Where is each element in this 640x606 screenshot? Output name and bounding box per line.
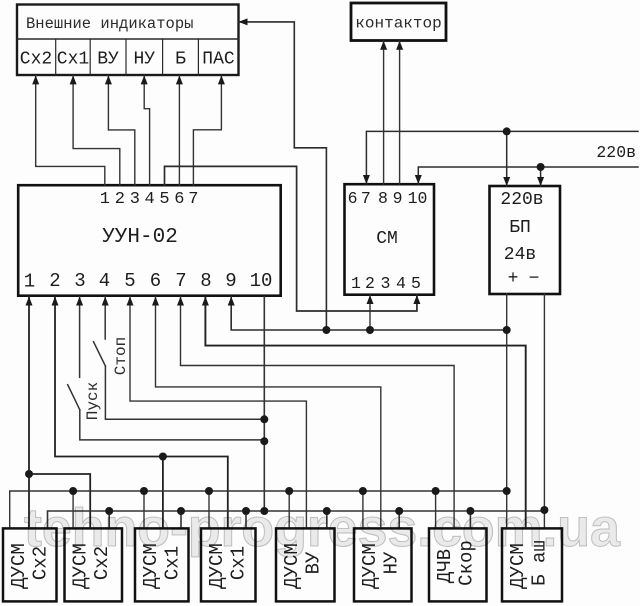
UUN bottom pin numbers 1-10 (24, 270, 273, 293)
wire 220v line lower to SM pin10 and BP (418, 167, 638, 186)
block DUSM box1 ДУСМ Сх2 (3, 528, 57, 601)
wire UUN top pin5 to SM bottom pin5 (165, 166, 417, 311)
wire UUN bottom pin3 upper (to Пуск switch) (79, 297, 81, 378)
switch Пуск blade (68, 385, 80, 410)
svg-text:ВУ: ВУ (97, 50, 119, 70)
wire SM bottom pin2 drop (369, 295, 371, 330)
svg-text:УУН-02: УУН-02 (102, 226, 178, 249)
block DUSM box2 ДУСМ Сх2 (65, 528, 123, 601)
wire SM pin8 to contactor (383, 41, 385, 184)
wire UUN bottom pin2 to box3/box4 (55, 297, 228, 529)
svg-text:8: 8 (378, 189, 388, 208)
svg-text:+: + (508, 269, 519, 289)
wire BP minus down (543, 294, 545, 528)
svg-text:220в: 220в (596, 143, 636, 162)
svg-text:БП: БП (509, 218, 531, 238)
block SM (СМ) (345, 184, 435, 295)
svg-text:4: 4 (99, 270, 110, 292)
block DUSM box6 ДУСМ НУ (354, 528, 412, 601)
svg-text:2: 2 (115, 190, 125, 209)
svg-text:tehno-progress.com.ua: tehno-progress.com.ua (24, 498, 621, 558)
wire UUN bottom pin8 to box8 (205, 297, 525, 529)
svg-text:1: 1 (24, 271, 35, 293)
down into SM top (363, 175, 370, 184)
wire 220v line upper to SM pin7 and BP (366, 131, 638, 186)
svg-text:2: 2 (365, 274, 375, 293)
up into UUN bottom (26, 297, 33, 306)
left into indicators right edge (239, 18, 248, 25)
up into contactor (380, 41, 387, 50)
wire UUN top pin7 to ПАС (193, 75, 221, 185)
svg-text:СМ: СМ (376, 229, 398, 249)
wire bus minus rail to boxes (48, 511, 545, 528)
svg-text:2: 2 (49, 270, 60, 292)
svg-text:5: 5 (124, 270, 135, 292)
wire bus plus rail to boxes (10, 491, 507, 528)
wire UUN bottom pin6 to box6 (156, 297, 381, 529)
svg-text:7: 7 (175, 270, 186, 292)
wire feed to indicators box right edge (239, 22, 327, 330)
svg-text:7: 7 (188, 190, 198, 209)
down into BP top (503, 177, 510, 186)
svg-text:Пуск: Пуск (84, 382, 102, 420)
wire UUN bottom pin9 bus 24v+ (231, 297, 507, 331)
svg-text:Сх2: Сх2 (20, 50, 52, 70)
svg-text:9: 9 (225, 270, 236, 292)
svg-text:6: 6 (174, 190, 184, 209)
arrowheads (26, 18, 545, 305)
block DUSM box3 ДУСМ Сх1 (135, 528, 189, 601)
svg-text:5: 5 (411, 274, 421, 293)
block DUSM box5 ДУСМ ВУ (276, 528, 335, 601)
svg-text:НУ: НУ (133, 50, 155, 70)
wire UUN top pin6 to Б (178, 75, 180, 185)
SM bottom pin numbers 1-5 (351, 274, 421, 293)
svg-text:10: 10 (408, 189, 428, 208)
svg-text:контактор: контактор (355, 15, 441, 33)
wire BP plus down (506, 294, 508, 528)
wire UUN bottom pin5 to box5 (130, 297, 306, 529)
svg-text:6: 6 (150, 270, 161, 292)
wire UUN top pin3 to ВУ (108, 75, 134, 185)
wire Пуск lower to pin10 net (80, 410, 264, 440)
svg-text:ПАС: ПАС (202, 50, 235, 70)
svg-text:Внешние индикаторы: Внешние индикаторы (26, 15, 193, 33)
svg-text:−: − (529, 269, 540, 289)
wire UUN top pin4 to НУ (144, 75, 149, 185)
svg-text:9: 9 (393, 189, 403, 208)
svg-text:3: 3 (130, 190, 140, 209)
svg-text:Б: Б (175, 50, 186, 70)
wire UUN bottom pin7 to box7 (181, 297, 455, 529)
svg-text:1: 1 (100, 190, 110, 209)
svg-text:3: 3 (381, 274, 391, 293)
svg-text:4: 4 (396, 274, 406, 293)
block contactor (контактор) (351, 3, 446, 41)
up into indicators (32, 75, 39, 84)
wire UUN top pin2 to Сх1 (73, 75, 120, 185)
SM top pin numbers 6-10 (348, 189, 428, 208)
svg-text:24в: 24в (504, 245, 536, 265)
UUN top pin numbers 1-7 (100, 190, 199, 209)
switch Стоп blade (94, 342, 106, 366)
wire UUN bottom pin1 to box1/box2 (29, 297, 90, 529)
block DUSM box8 ДУСМ Б аш (502, 528, 562, 601)
block indicators (Внешние индикаторы) (17, 5, 239, 76)
wire UUN bottom pin4 upper (to Стоп switch) (104, 297, 106, 340)
svg-text:220в: 220в (500, 190, 543, 210)
svg-text:10: 10 (250, 270, 273, 292)
svg-text:Стоп: Стоп (112, 337, 130, 375)
block BP 24v (БП) (490, 186, 561, 294)
svg-text:7: 7 (361, 189, 371, 208)
svg-text:5: 5 (159, 190, 169, 209)
svg-text:6: 6 (348, 189, 358, 208)
block DUSM box4 ДУСМ Сх1 (201, 528, 256, 601)
svg-text:3: 3 (74, 270, 85, 292)
wire SM pin9 to contactor (399, 41, 401, 184)
block DChV box7 ДЧВ Скор (429, 528, 487, 601)
wire UUN top pin1 to Сх2 (36, 75, 105, 185)
up into SM bottom (367, 295, 374, 304)
svg-text:8: 8 (200, 270, 211, 292)
wire UUN bottom pin10 vertical (263, 297, 265, 512)
wire Стоп lower to pin10 net (105, 366, 264, 419)
svg-text:4: 4 (144, 190, 154, 209)
svg-text:1: 1 (351, 274, 361, 293)
block UUN-02 (УУН-02) (18, 185, 281, 296)
svg-text:Сх1: Сх1 (57, 50, 89, 70)
